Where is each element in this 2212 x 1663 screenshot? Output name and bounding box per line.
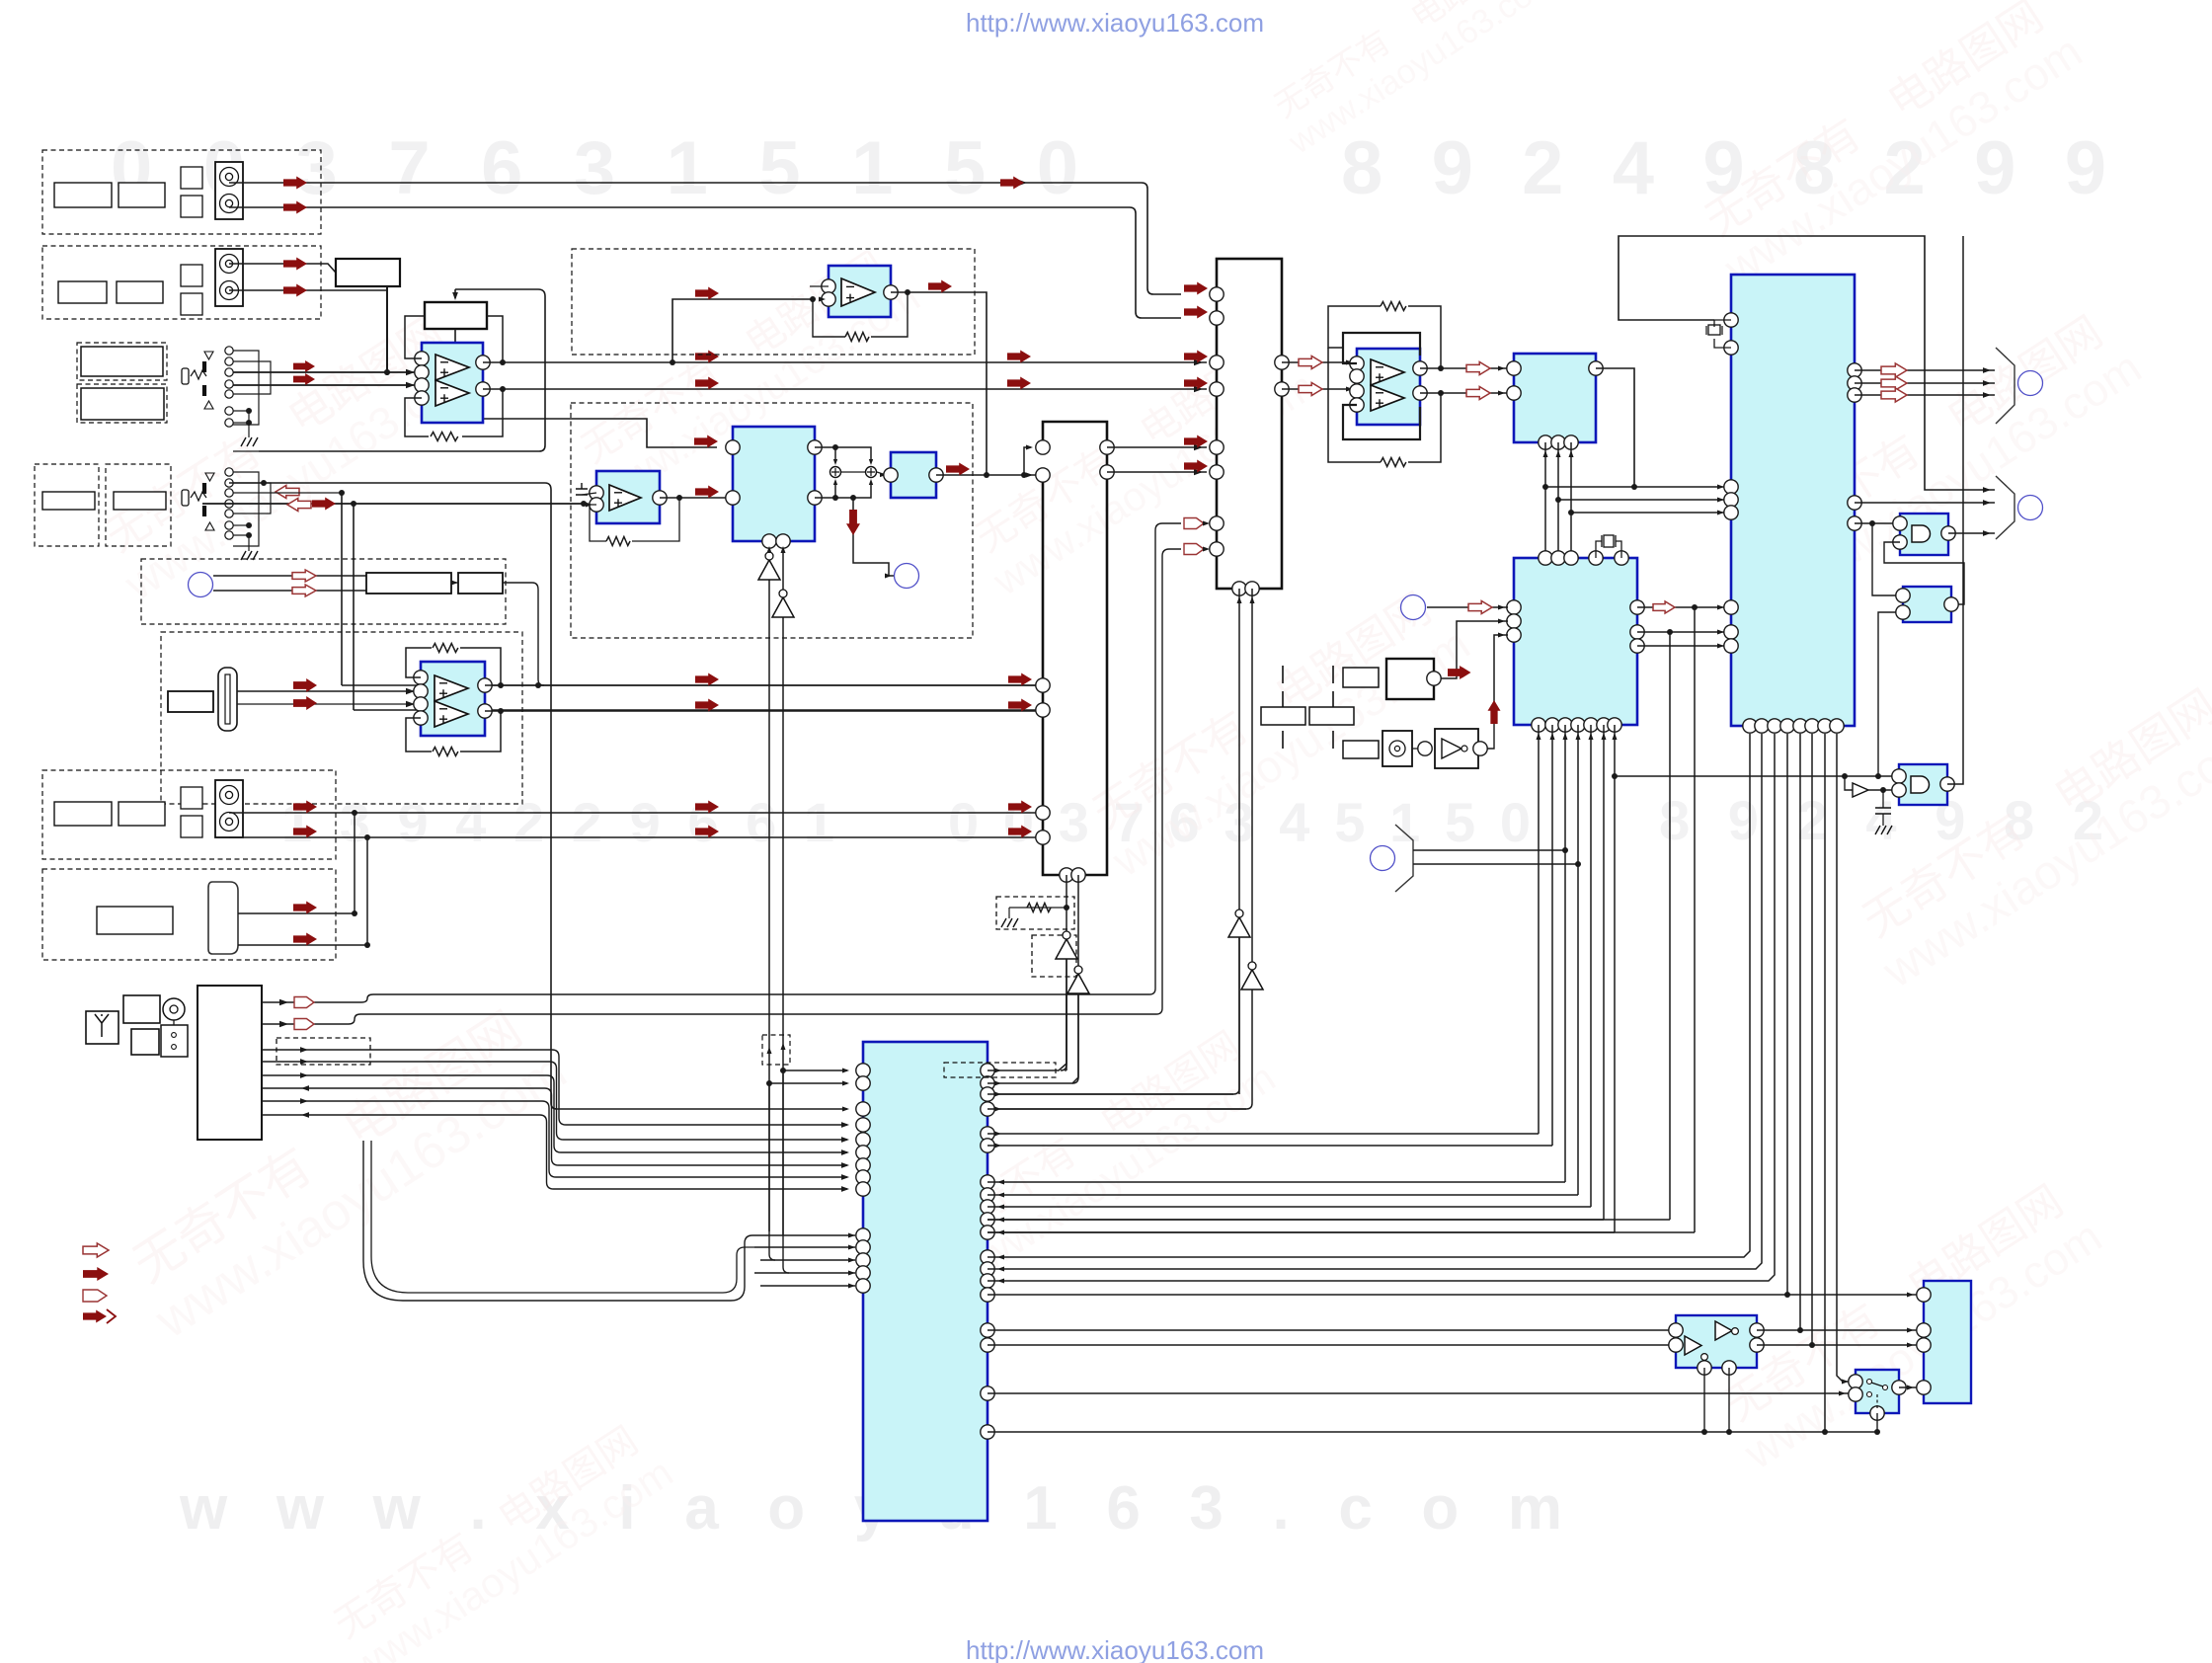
B1 bottom pins down bbox=[1703, 1368, 1705, 1432]
U4 feedback bbox=[632, 498, 679, 541]
svg-text:http://www.xiaoyu163.com: http://www.xiaoyu163.com bbox=[966, 8, 1264, 38]
jack body SW1 bbox=[182, 368, 189, 384]
connector circle aux bbox=[1371, 846, 1395, 871]
U1 feedback bottom loop bbox=[405, 398, 429, 436]
AND gate N3 bbox=[1899, 764, 1947, 805]
U5 sum nodes bbox=[815, 447, 871, 460]
opamp block U4 bbox=[596, 471, 660, 523]
SEL2 bottom chain2 bbox=[1077, 875, 1079, 970]
N1 second input loop bbox=[1884, 542, 1964, 604]
dashed box line-in 2 bbox=[42, 246, 321, 319]
wire U2 out2 to SEL2 bbox=[485, 710, 1037, 712]
arrows sw1 bbox=[293, 360, 315, 372]
wire rec sel down bbox=[386, 286, 388, 372]
arrow into C4 pin1 bbox=[694, 436, 718, 448]
U6 out wire bbox=[936, 474, 1037, 476]
U7 outs to C6 bbox=[1420, 367, 1508, 369]
selector block SEL2 bbox=[1043, 422, 1107, 875]
U7 feedback bottom bbox=[1328, 348, 1381, 462]
remote wires bbox=[213, 575, 366, 577]
amp block U10 bbox=[1731, 275, 1855, 726]
wire J3 main bbox=[202, 503, 584, 505]
wire cass top bbox=[238, 912, 355, 914]
wire mcu to C8 top bbox=[987, 1294, 1917, 1296]
block system connector CN1 bbox=[197, 986, 262, 1140]
CN1 outputs top pair bbox=[262, 523, 1181, 1002]
power switch chain bbox=[1343, 741, 1379, 758]
block power reg bbox=[1386, 659, 1434, 699]
U7 inner frame bbox=[1343, 333, 1420, 363]
U2 feedback bottom bbox=[406, 718, 432, 752]
svg-text:1 3 9 4 2 2 9 6 6 1: 1 3 9 4 2 2 9 6 6 1 bbox=[281, 791, 834, 853]
mcu right wires to SEL1 inverters bbox=[987, 1093, 1233, 1095]
selector block SEL1 bbox=[1217, 259, 1282, 589]
U9 outs bbox=[1637, 606, 1727, 608]
phono circle bbox=[163, 998, 185, 1020]
opamp block U7 bbox=[1357, 349, 1420, 425]
speaker outs bbox=[1855, 369, 1995, 371]
buffer + N3 at bottom bbox=[1615, 775, 1893, 777]
N2 block bbox=[1903, 587, 1951, 622]
wire J3 line1 curves up bbox=[233, 450, 259, 452]
RCA jack pair J4 bbox=[215, 780, 243, 837]
SEL1 top feed arrows bbox=[1184, 282, 1208, 295]
SEL2 out wires bbox=[1107, 446, 1207, 448]
mcu right wires to U9 bottom pins bbox=[987, 1133, 1539, 1135]
U8 bottom verticals bbox=[1544, 442, 1546, 557]
dac block U8 bbox=[1514, 354, 1596, 442]
mcu bottom-left pin stubs bbox=[760, 1234, 855, 1236]
wire J4 top to SEL2 bbox=[229, 812, 1037, 814]
sw1 contact frame bbox=[233, 351, 259, 425]
SEL2 bottom chains bbox=[1066, 875, 1067, 908]
mcu dashed option box bbox=[944, 1063, 1056, 1077]
dashed box remote bbox=[141, 559, 506, 624]
dashed box headphone L bbox=[35, 464, 99, 546]
extra verticals from C7 outs tap bbox=[987, 1219, 1670, 1221]
block volume label bbox=[168, 691, 213, 712]
remote arrows bbox=[292, 570, 316, 582]
wire J1 top bbox=[229, 183, 1181, 294]
U8 out wire bbox=[1596, 368, 1634, 487]
arrows vol bbox=[293, 678, 317, 692]
S1 bottom to bus bbox=[1876, 1413, 1878, 1432]
inverter box bbox=[1435, 729, 1478, 768]
antenna symbol bbox=[86, 1011, 118, 1044]
wire rec level out bbox=[455, 329, 717, 447]
wire J3 out1 bbox=[259, 289, 545, 451]
wire J4 bottom to SEL2 bbox=[229, 836, 1037, 838]
U3 input wire bbox=[672, 299, 812, 362]
opamp block U3 bbox=[829, 266, 891, 317]
headphone jack J3 bbox=[225, 468, 233, 476]
wire jack sub2 down bbox=[353, 504, 355, 710]
U3 out bbox=[891, 292, 987, 475]
connector circle rec bbox=[895, 564, 919, 589]
volume slider bbox=[218, 668, 237, 731]
S1 out bbox=[1899, 1386, 1917, 1388]
crystal X2 bbox=[1714, 319, 1731, 321]
U5 bottom inverters bbox=[768, 549, 770, 1231]
U9 bottom pin verticals down bbox=[1538, 725, 1540, 1134]
RCA jack pair J1 bbox=[215, 162, 243, 219]
U7 feedback top bbox=[1328, 306, 1381, 348]
small box a bbox=[123, 995, 160, 1023]
wire CN1 bus 1 bbox=[262, 1050, 847, 1125]
wire sw1 to C1 bottom bbox=[233, 384, 421, 386]
top loop wire bbox=[1619, 236, 1925, 489]
wires mcu to B1 bbox=[987, 1329, 1669, 1331]
aux wires bbox=[1413, 849, 1565, 851]
SEL1 bottom verticals to inverters bbox=[1238, 589, 1240, 913]
inverter bus bottom curves bbox=[769, 1083, 775, 1260]
N3 out up to top loop bbox=[1947, 236, 1963, 784]
mcu right wires group A (up) bbox=[987, 993, 1066, 1070]
wire mcu bottom bus bbox=[987, 1431, 1877, 1433]
wire U2 out1 to SEL2 bbox=[485, 684, 1037, 686]
dashed box headphone R bbox=[106, 464, 171, 546]
wire to SEL2 pin2 bbox=[354, 709, 1037, 711]
dsp block U5 bbox=[733, 427, 815, 541]
dashed minibox inverter bus bbox=[762, 1035, 790, 1065]
wire cass bottom bbox=[238, 944, 367, 946]
U4 input cap bbox=[576, 483, 588, 495]
remote rect A bbox=[366, 573, 451, 594]
arrow U1o1 bbox=[695, 351, 719, 363]
cassette head shape bbox=[208, 882, 238, 954]
wire sw1 to C1 top bbox=[233, 371, 421, 373]
opamp block U1 (phono amp) bbox=[422, 343, 483, 423]
sum out to U6 bbox=[841, 471, 865, 473]
wire CN1 bus 6 bbox=[262, 1115, 847, 1189]
C8 block bbox=[1924, 1281, 1971, 1403]
watermark pink diagonal marks bbox=[89, 300, 492, 610]
AND gate N1 bbox=[1900, 514, 1948, 555]
RCA jack pair J2 bbox=[215, 249, 243, 306]
block rec level pot bbox=[425, 302, 487, 329]
loop wire CN1 return bbox=[363, 1141, 760, 1301]
small box b bbox=[131, 1029, 159, 1055]
mcu right wires group D (from big IC bottom pins) bbox=[987, 734, 1750, 1257]
arrow U1o2 bbox=[695, 377, 719, 390]
dashed box dsp section bbox=[571, 403, 973, 638]
wire U1 out1 to SEL1 pin3 bbox=[483, 361, 1207, 363]
SEL1 out wires to OP2 bbox=[1282, 361, 1357, 363]
cap to gnd bbox=[1882, 790, 1884, 808]
wire J3 out2 bbox=[229, 483, 847, 1109]
dashed box mute res bbox=[996, 897, 1074, 929]
slider wires bbox=[237, 690, 420, 692]
opamp block U2 (tone amp) bbox=[421, 662, 485, 736]
arrows J3 bbox=[276, 486, 299, 499]
dashed box rec-out amp bbox=[572, 249, 975, 355]
wire CN1 bus 2 bbox=[262, 1062, 847, 1140]
battery cells bbox=[1283, 666, 1333, 709]
U2 feedback top bbox=[406, 648, 432, 677]
arrow A2 bbox=[283, 201, 307, 214]
mcu block U11 bbox=[863, 1042, 987, 1521]
rotary switch SW1 bbox=[225, 347, 233, 355]
wires to big IC bbox=[1545, 486, 1727, 488]
svg-text:http://www.xiaoyu163.com: http://www.xiaoyu163.com bbox=[966, 1635, 1264, 1663]
speaker bracket 1 bbox=[1996, 348, 2014, 424]
block rec selector bbox=[336, 259, 400, 286]
verticals from taps down to MCU wires bbox=[1694, 607, 1696, 1232]
wire CN1 bus 5 bbox=[262, 1101, 847, 1177]
remote out bbox=[503, 583, 544, 685]
wire J2 bottom bbox=[229, 286, 387, 290]
wire U1 out2 to SEL1 pin4 bbox=[483, 388, 1207, 390]
wire J1 bottom bbox=[229, 207, 1181, 318]
power in U9 pin3 bbox=[1494, 635, 1508, 722]
crystal X1 bbox=[1596, 541, 1602, 558]
buffer block B1 bbox=[1676, 1315, 1757, 1368]
wire J2 top bbox=[229, 264, 336, 273]
wire jack to SEL2 pin1 bbox=[342, 684, 1037, 686]
block U6 bbox=[891, 452, 936, 498]
dashed box mute inv bbox=[1032, 935, 1076, 977]
dashed box cassette bbox=[42, 869, 336, 960]
mic circle in bbox=[1401, 595, 1426, 620]
U4 out to C4 bbox=[660, 497, 733, 499]
headphone out bracket bbox=[1925, 489, 1995, 490]
dashed mini box CN1 bbox=[276, 1038, 370, 1065]
dashed box tape-in bbox=[42, 770, 336, 859]
wire mcu to S1 pin2 bbox=[987, 1392, 1849, 1394]
small connector box bbox=[161, 1025, 188, 1057]
legend arrows bbox=[83, 1243, 109, 1257]
rec mix down arrow bbox=[853, 498, 894, 576]
switch block S1 bbox=[1856, 1370, 1899, 1413]
B1 outs bbox=[1757, 1329, 1917, 1331]
U1 feedback top loop bbox=[405, 316, 425, 358]
dashed box volume/tone bbox=[161, 632, 522, 804]
aux in U9 pin2 bbox=[1434, 621, 1508, 678]
dashed box tuner display 1 bbox=[77, 343, 167, 380]
remote circle bbox=[189, 573, 213, 597]
dsp block U9 bbox=[1514, 558, 1637, 725]
arrow A1b bbox=[1000, 177, 1024, 190]
wire CN1 bus 4 bbox=[262, 1088, 847, 1165]
dashed box tuner display 2 bbox=[77, 384, 167, 423]
wire J3 sub1 down bbox=[341, 493, 343, 685]
taps to MCU pins 1,2 bbox=[780, 1068, 786, 1073]
remote rect B bbox=[458, 573, 503, 594]
U3 feedback bbox=[813, 299, 845, 337]
sw1 ground leg bbox=[233, 411, 249, 437]
dashed box line-in 1 bbox=[42, 150, 321, 234]
arrow A1 bbox=[283, 177, 307, 190]
N2 input 2 from below bbox=[1878, 612, 1896, 776]
wire CN1 bus 3 bbox=[262, 1075, 847, 1152]
J3 ground bbox=[233, 524, 249, 526]
